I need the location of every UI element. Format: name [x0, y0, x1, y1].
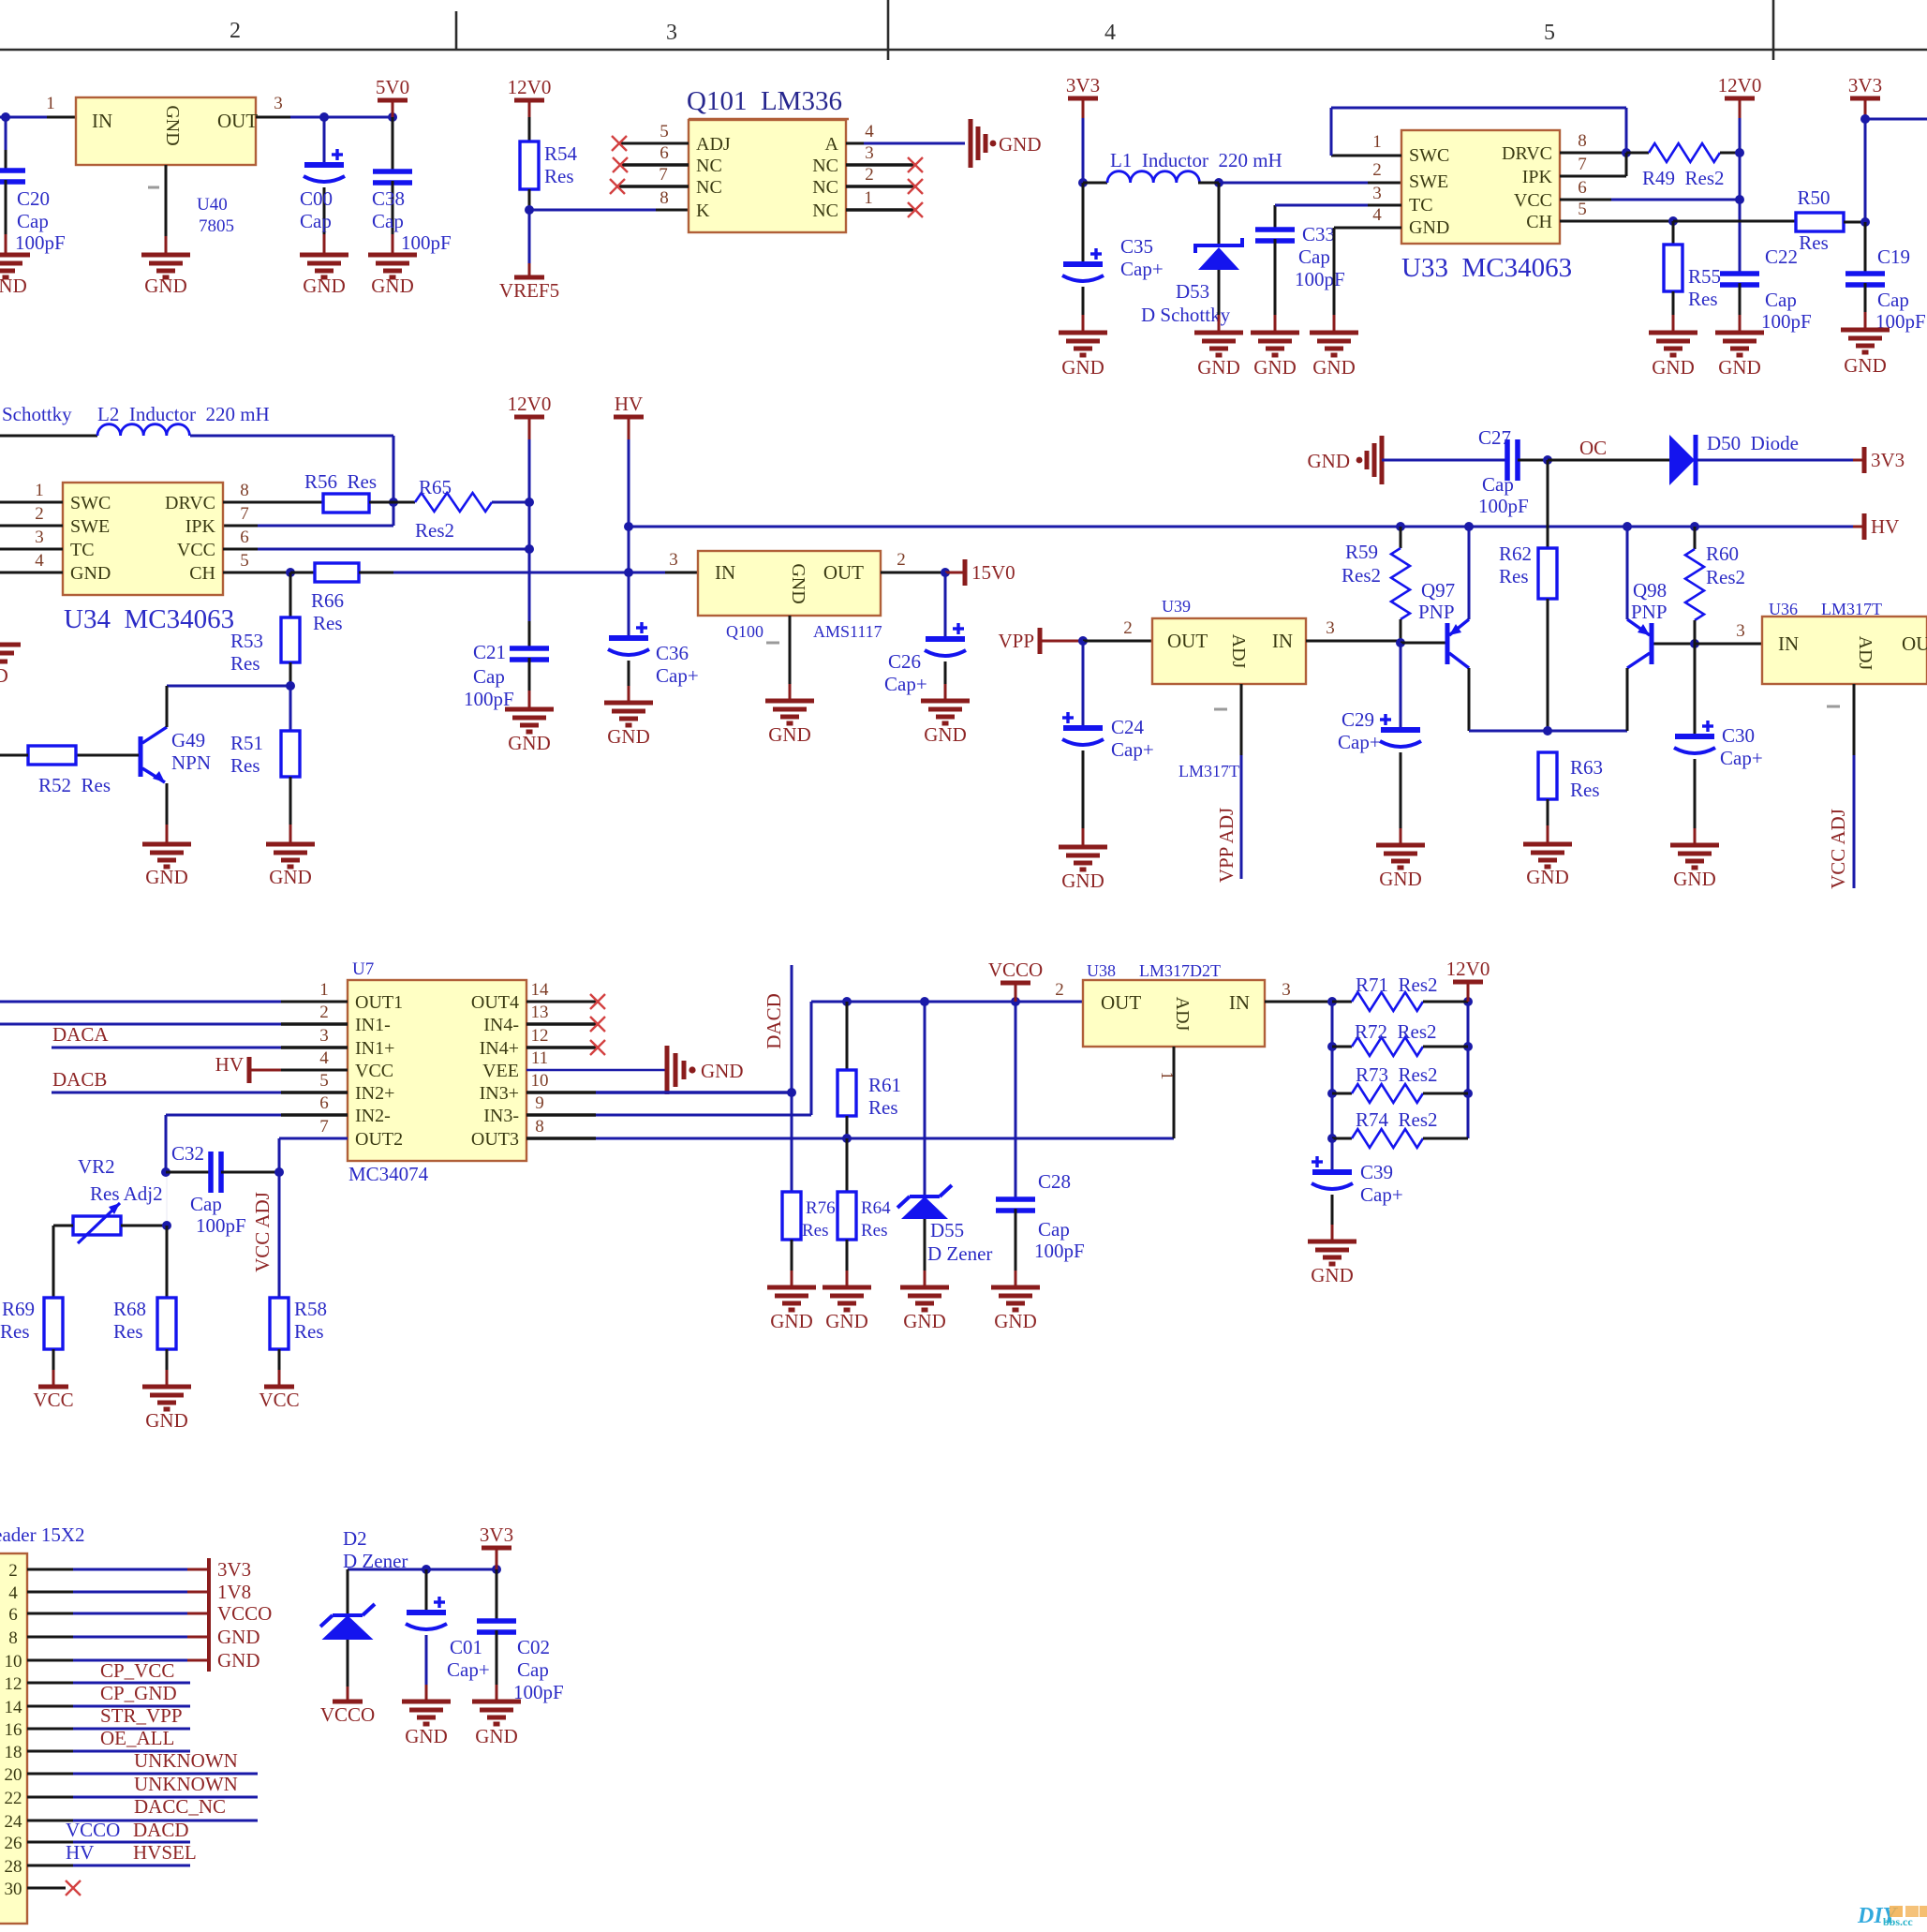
svg-text:26: 26	[5, 1834, 22, 1853]
ground for D53	[1194, 333, 1243, 355]
svg-text:GND: GND	[0, 664, 8, 687]
svg-text:DACC_NC: DACC_NC	[134, 1795, 226, 1818]
wire D50 to 3V3	[1697, 459, 1853, 462]
svg-text:Q101 LM336: Q101 LM336	[687, 86, 842, 116]
node R53 top	[286, 568, 295, 577]
svg-text:R61: R61	[868, 1074, 901, 1096]
resistor R64	[846, 1138, 849, 1192]
capacitor C30 polarized	[1694, 644, 1697, 736]
svg-text:IN4-: IN4-	[483, 1015, 519, 1035]
svg-text:R51: R51	[230, 732, 263, 754]
ground for U33 pin4	[1310, 333, 1358, 355]
resistor R73	[1332, 1092, 1352, 1095]
svg-text:4: 4	[319, 1048, 329, 1068]
ground for C39	[1308, 1241, 1356, 1264]
svg-text:VREF5: VREF5	[499, 279, 559, 302]
HV vertical	[628, 439, 630, 638]
svg-text:1: 1	[319, 980, 329, 1000]
wire loop to U34 pin7	[258, 525, 393, 528]
3V3 rail bottom	[348, 1568, 497, 1571]
svg-text:8: 8	[8, 1628, 18, 1648]
svg-text:IN: IN	[1229, 991, 1250, 1014]
svg-text:GND: GND	[1718, 356, 1761, 379]
resistor R49	[1626, 152, 1649, 155]
svg-text:1: 1	[864, 188, 873, 208]
svg-text:C20: C20	[17, 187, 50, 210]
sideways ground at C27	[1367, 436, 1382, 484]
svg-text:IN: IN	[1778, 632, 1799, 655]
svg-text:2: 2	[897, 550, 906, 570]
node R62 R63	[1543, 726, 1552, 736]
svg-text:ADJ: ADJ	[1172, 997, 1193, 1032]
svg-text:LM317T: LM317T	[1178, 762, 1239, 780]
capacitor C29 polarized	[1400, 643, 1402, 730]
svg-text:IN: IN	[1272, 630, 1293, 652]
power VCCO	[1001, 981, 1030, 986]
svg-text:DACB: DACB	[52, 1068, 107, 1091]
svg-text:PNP: PNP	[1631, 601, 1668, 623]
node Q97 base	[1396, 638, 1405, 647]
svg-text:C02: C02	[517, 1636, 550, 1658]
svg-text:2: 2	[1123, 618, 1133, 638]
U7 pin1 wire	[0, 1001, 281, 1003]
ground for C36	[604, 703, 653, 725]
svg-text:SWE: SWE	[1409, 171, 1448, 192]
svg-text:10: 10	[531, 1071, 549, 1091]
svg-text:D2: D2	[343, 1527, 367, 1550]
svg-text:GND: GND	[1061, 869, 1104, 892]
svg-text:OUT: OUT	[1167, 630, 1208, 652]
svg-text:GND: GND	[303, 275, 346, 297]
svg-text:Res: Res	[544, 165, 574, 187]
wire Q98 base to U36	[1695, 643, 1762, 646]
resistor R76	[791, 1191, 793, 1193]
svg-text:Cap: Cap	[473, 665, 505, 688]
svg-text:Res: Res	[313, 612, 343, 634]
svg-text:NPN: NPN	[171, 751, 211, 774]
svg-text:SWC: SWC	[1409, 145, 1449, 166]
U34 pin5 wire	[223, 572, 290, 574]
svg-text:C21: C21	[473, 641, 506, 663]
svg-text:Res Adj2: Res Adj2	[90, 1182, 163, 1205]
svg-text:GND: GND	[1673, 868, 1716, 890]
svg-text:AMS1117: AMS1117	[813, 622, 882, 641]
ground for C20	[0, 255, 30, 277]
svg-text:IN3+: IN3+	[480, 1083, 519, 1104]
ground for D55	[900, 1287, 949, 1310]
Q101 pin 4 wire to GND	[846, 142, 864, 145]
svg-text:GND: GND	[903, 1310, 946, 1332]
svg-text:GND: GND	[1652, 356, 1695, 379]
resistor R69	[44, 1298, 63, 1349]
node C32 right	[274, 1167, 284, 1177]
node R61 top	[842, 997, 852, 1006]
svg-text:U39: U39	[1162, 597, 1191, 616]
svg-text:20: 20	[5, 1765, 22, 1785]
svg-text:C28: C28	[1038, 1170, 1071, 1193]
svg-text:TC: TC	[1409, 195, 1433, 215]
U34 pin2 wire	[0, 525, 63, 528]
svg-text:UNKNOWN: UNKNOWN	[134, 1773, 238, 1795]
svg-text:Cap: Cap	[1482, 473, 1514, 496]
node R61 bottom	[842, 1134, 852, 1143]
svg-text:R73 Res2: R73 Res2	[1356, 1063, 1438, 1086]
svg-text:OC: OC	[1579, 437, 1607, 459]
top feedback wire	[1331, 107, 1626, 110]
svg-text:R66: R66	[311, 589, 344, 612]
Q101 pin 1 wire	[846, 208, 913, 212]
wire 12V0 to pin6 node	[528, 502, 531, 549]
svg-text:C32: C32	[171, 1142, 204, 1165]
svg-text:K: K	[696, 201, 710, 221]
svg-text:OUT: OUT	[217, 110, 258, 132]
ground for C22	[1715, 333, 1764, 355]
node C01	[422, 1565, 431, 1574]
wire VR2 left down	[52, 1226, 55, 1298]
svg-text:GND: GND	[1409, 217, 1449, 238]
svg-text:Res: Res	[230, 652, 260, 675]
svg-text:GND: GND	[145, 866, 188, 888]
svg-text:1: 1	[1372, 132, 1382, 152]
svg-text:NC: NC	[696, 156, 722, 176]
svg-text:Cap+: Cap+	[1111, 738, 1154, 761]
svg-text:R71 Res2: R71 Res2	[1356, 973, 1438, 996]
svg-text:2: 2	[865, 165, 874, 185]
svg-text:Cap: Cap	[1765, 289, 1797, 311]
svg-text:Cap+: Cap+	[1360, 1183, 1403, 1206]
svg-text:U33 MC34063: U33 MC34063	[1401, 253, 1572, 283]
VCCO rail wire	[811, 1001, 1083, 1003]
power 3V3 bottom	[482, 1546, 511, 1551]
U33 pin6 wire	[1560, 199, 1611, 201]
svg-text:8: 8	[535, 1117, 544, 1137]
svg-text:GND: GND	[145, 1409, 188, 1432]
capacitor C01 polarized	[425, 1569, 428, 1612]
svg-text:8: 8	[240, 481, 249, 500]
svg-text:DRVC: DRVC	[1502, 143, 1552, 164]
svg-text:11: 11	[531, 1048, 548, 1068]
svg-text:MC34074: MC34074	[348, 1163, 429, 1185]
svg-text:3: 3	[319, 1026, 329, 1046]
Q101 pin 6 wire	[622, 163, 689, 167]
svg-text:R74 Res2: R74 Res2	[1356, 1108, 1438, 1131]
svg-text:30: 30	[5, 1880, 22, 1899]
wire L1 to U33 pin2	[1219, 182, 1368, 185]
border tick 1	[455, 11, 458, 50]
svg-text:C27: C27	[1478, 426, 1511, 449]
svg-text:2: 2	[8, 1561, 18, 1581]
wire 12V0 to C22	[1739, 200, 1742, 274]
resistor R68	[157, 1298, 176, 1349]
svg-text:HVSEL: HVSEL	[133, 1841, 197, 1864]
power HV right bar	[1862, 513, 1867, 540]
svg-text:C00: C00	[300, 187, 333, 210]
svg-text:VCCO: VCCO	[320, 1703, 375, 1726]
svg-text:IN: IN	[715, 561, 735, 584]
svg-text:4: 4	[865, 122, 874, 141]
node D55 top	[920, 997, 929, 1006]
svg-text:GND: GND	[217, 1626, 260, 1648]
node R49 12V0	[1735, 148, 1744, 157]
svg-text:4: 4	[8, 1583, 18, 1603]
svg-text:28: 28	[5, 1857, 22, 1877]
ground for G49	[142, 844, 191, 867]
U7 pin7 wire	[279, 1137, 348, 1140]
svg-text:5V0: 5V0	[376, 76, 409, 98]
svg-text:bbs.cc: bbs.cc	[1883, 1915, 1913, 1927]
svg-text:C35: C35	[1120, 235, 1153, 258]
node R74 left	[1327, 1134, 1337, 1143]
ground for C28	[991, 1287, 1040, 1310]
wire collector row	[167, 685, 290, 688]
svg-text:OUT1: OUT1	[355, 992, 403, 1013]
wire R66 row to Q100	[629, 572, 665, 574]
U39 ADJ pin wire	[1240, 684, 1243, 755]
wire L2 to loop	[190, 435, 393, 438]
svg-text:100pF: 100pF	[464, 688, 514, 710]
diode D53 schottky	[1218, 183, 1221, 245]
svg-text:100pF: 100pF	[1034, 1240, 1085, 1262]
ground for R68	[142, 1387, 191, 1409]
power 3V3 at D50	[1862, 447, 1867, 473]
svg-text:16: 16	[5, 1720, 22, 1740]
svg-text:D53: D53	[1176, 280, 1209, 303]
svg-text:ADJ: ADJ	[1228, 634, 1249, 669]
inductor L1	[1083, 182, 1107, 185]
node R71 right	[1463, 997, 1473, 1006]
svg-text:IPK: IPK	[1522, 167, 1553, 187]
capacitor C21	[510, 646, 549, 651]
wire VPP to U39	[1083, 640, 1152, 643]
svg-text:GND: GND	[999, 133, 1042, 156]
node C00	[319, 112, 329, 122]
power 15V0	[963, 559, 968, 586]
svg-text:D Zener: D Zener	[927, 1242, 992, 1265]
svg-text:R49 Res2: R49 Res2	[1642, 167, 1725, 189]
svg-text:2: 2	[1055, 980, 1064, 1000]
node at C20 top	[1, 112, 10, 122]
resistor R58	[270, 1298, 289, 1349]
svg-text:GND: GND	[1308, 450, 1351, 472]
svg-text:4: 4	[1372, 205, 1382, 225]
svg-text:GND: GND	[70, 563, 111, 584]
svg-text:U40: U40	[197, 195, 228, 215]
svg-text:12V0: 12V0	[508, 393, 552, 415]
U7 pin6 riser to C32	[165, 1115, 168, 1172]
node loop R56	[389, 498, 398, 507]
svg-text:CH: CH	[1526, 212, 1552, 232]
node VCCO C28	[1011, 997, 1020, 1006]
svg-text:GND: GND	[994, 1310, 1037, 1332]
svg-text:12V0: 12V0	[508, 76, 552, 98]
wire C32 junction to R68	[166, 1172, 168, 1226]
svg-text:Cap: Cap	[17, 210, 49, 232]
svg-text:4: 4	[1104, 21, 1116, 45]
ground for R64	[823, 1287, 871, 1310]
svg-text:3: 3	[865, 143, 874, 163]
svg-text:Cap: Cap	[1038, 1218, 1070, 1241]
node R72 left	[1327, 1042, 1337, 1051]
svg-text:R62: R62	[1499, 542, 1532, 565]
svg-text:VCC: VCC	[33, 1389, 73, 1411]
svg-text:R53: R53	[230, 630, 263, 652]
svg-text:100pF: 100pF	[15, 231, 66, 254]
capacitor C36 polarized	[628, 572, 630, 638]
svg-text:Schottky: Schottky	[2, 403, 72, 425]
U38 ADJ pin wire	[1173, 1047, 1176, 1138]
svg-text:GND: GND	[508, 732, 551, 754]
svg-text:GND: GND	[475, 1725, 518, 1747]
svg-text:NC: NC	[812, 201, 838, 221]
svg-text:Cap: Cap	[372, 210, 404, 232]
svg-text:3: 3	[1736, 621, 1745, 641]
svg-text:C01: C01	[450, 1636, 482, 1658]
svg-text:GND: GND	[269, 866, 312, 888]
node C38	[388, 112, 397, 122]
svg-text:3V3: 3V3	[1848, 74, 1882, 97]
node DACD pin10	[787, 1088, 796, 1097]
Q97 emitter riser	[1468, 527, 1471, 619]
power VREF5	[514, 275, 544, 280]
ground for C26	[921, 701, 970, 723]
wire input to U40 pin 1	[0, 116, 47, 119]
svg-text:Res2: Res2	[1341, 564, 1381, 587]
svg-text:7: 7	[1578, 155, 1587, 174]
svg-text:3: 3	[669, 550, 678, 570]
svg-text:GND: GND	[144, 275, 187, 297]
wire down to C21	[528, 549, 531, 621]
svg-text:GND: GND	[1312, 356, 1356, 379]
svg-text:GND: GND	[1197, 356, 1240, 379]
svg-text:GND: GND	[825, 1310, 868, 1332]
svg-text:Res: Res	[230, 754, 260, 777]
svg-text:4: 4	[35, 551, 44, 571]
svg-text:1: 1	[1158, 1072, 1177, 1080]
svg-text:1: 1	[35, 481, 44, 500]
node HV R59	[1396, 522, 1405, 531]
svg-text:IN4+: IN4+	[480, 1038, 519, 1059]
svg-text:Res: Res	[861, 1221, 888, 1241]
svg-text:Cap+: Cap+	[447, 1658, 490, 1681]
resistor R53	[289, 572, 292, 617]
svg-text:14: 14	[5, 1698, 23, 1717]
svg-text:CP_VCC: CP_VCC	[100, 1659, 174, 1682]
node L1 left	[1078, 178, 1088, 187]
wire into L2	[0, 435, 97, 438]
power VCC under R58	[264, 1385, 294, 1390]
regulator U36 box	[1762, 617, 1927, 684]
transistor G49 NPN	[139, 736, 143, 777]
svg-text:3V3: 3V3	[1066, 74, 1100, 97]
capacitor C02	[496, 1569, 498, 1621]
U7 pin11 VEE wire	[526, 1069, 665, 1072]
node R50 C19	[1860, 217, 1870, 227]
ground for R63	[1523, 844, 1572, 867]
svg-text:IPK: IPK	[185, 516, 216, 537]
svg-text:12V0: 12V0	[1446, 958, 1490, 980]
svg-text:G49: G49	[171, 729, 205, 751]
svg-text:1V8: 1V8	[217, 1581, 251, 1603]
svg-text:VCC: VCC	[177, 540, 215, 560]
svg-text:R55: R55	[1688, 265, 1721, 288]
node OC	[1543, 455, 1552, 465]
U7 pin12 wire	[526, 1046, 596, 1048]
capacitor C19	[1864, 222, 1867, 274]
Q98 collector drop	[1626, 668, 1629, 731]
svg-text:LM317D2T: LM317D2T	[1139, 961, 1221, 980]
svg-text:ADJ: ADJ	[696, 134, 731, 155]
wire 3V3 to edge	[1865, 118, 1927, 121]
node R53 R51	[286, 681, 295, 691]
svg-text:U34 MC34063: U34 MC34063	[64, 604, 234, 634]
U34 pin3 wire	[0, 548, 63, 551]
svg-text:C19: C19	[1877, 245, 1910, 268]
resistor R51	[289, 686, 292, 731]
svg-text:NC: NC	[812, 177, 838, 198]
U34 pin4 wire	[0, 572, 63, 574]
svg-text:Res2: Res2	[415, 519, 454, 542]
svg-text:OUT4: OUT4	[471, 992, 519, 1013]
svg-text:GND: GND	[371, 275, 414, 297]
svg-text:STR_VPP: STR_VPP	[100, 1704, 183, 1727]
svg-text:IN: IN	[92, 110, 112, 132]
svg-text:OE_ALL: OE_ALL	[100, 1727, 174, 1749]
svg-text:VCC ADJ: VCC ADJ	[251, 1192, 274, 1272]
svg-text:R69: R69	[2, 1298, 35, 1320]
Q100 pin2 wire	[881, 572, 945, 574]
svg-text:GND: GND	[701, 1060, 744, 1082]
svg-text:IN1-: IN1-	[355, 1015, 391, 1035]
resistor R54	[520, 141, 539, 189]
svg-text:Res: Res	[1799, 231, 1829, 254]
regulator U38 box	[1083, 980, 1265, 1047]
svg-text:Cap: Cap	[190, 1193, 222, 1215]
svg-text:100pF: 100pF	[401, 231, 452, 254]
svg-text:Res: Res	[1688, 288, 1718, 310]
svg-text:D55: D55	[930, 1219, 964, 1241]
svg-text:3: 3	[1372, 184, 1382, 203]
svg-text:VCC ADJ: VCC ADJ	[1827, 809, 1849, 889]
svg-text:GND: GND	[607, 725, 650, 748]
U39 pin3 wire	[1306, 640, 1401, 643]
capacitor C22	[1720, 271, 1759, 276]
Q101 pin 2 wire	[846, 185, 913, 188]
U7 pin8 wire	[526, 1137, 596, 1139]
svg-text:DRVC: DRVC	[165, 493, 215, 513]
svg-text:10: 10	[5, 1652, 22, 1672]
svg-text:R60: R60	[1706, 542, 1739, 565]
node VPP	[1078, 636, 1088, 646]
svg-text:2: 2	[230, 19, 241, 43]
U7 pin6 wire	[166, 1114, 281, 1117]
svg-text:3V3: 3V3	[1871, 449, 1905, 471]
svg-text:VCCO: VCCO	[988, 959, 1043, 981]
resistor R52	[28, 746, 76, 765]
ground for C30	[1670, 845, 1719, 868]
svg-text:GND: GND	[405, 1725, 448, 1747]
svg-text:24: 24	[5, 1812, 23, 1832]
node R54 bottom	[525, 205, 534, 215]
ground for C19	[1841, 330, 1890, 352]
ground for C00	[300, 255, 348, 277]
power VCC under R69	[38, 1385, 68, 1390]
svg-text:3: 3	[1326, 618, 1335, 638]
svg-text:IN3-: IN3-	[483, 1106, 519, 1126]
svg-text:100pF: 100pF	[196, 1214, 246, 1237]
power 12V0 mid	[514, 415, 544, 420]
svg-text:Cap: Cap	[517, 1658, 549, 1681]
capacitor C32 horizontal	[161, 1167, 170, 1177]
